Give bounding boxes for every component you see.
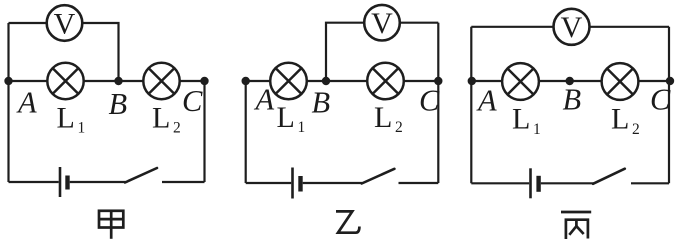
wire: left vertical (丙) [470, 27, 472, 184]
svg-text:L: L [277, 101, 295, 134]
svg-text:1: 1 [78, 120, 86, 137]
wire: left vertical (乙) [245, 81, 247, 183]
wire: right vertical top corner to node C (乙) [437, 23, 439, 81]
lamp L2 (乙) [367, 63, 404, 100]
wire: main wire node B to lamp L2 (乙) [326, 80, 367, 82]
svg-text:L: L [374, 101, 392, 134]
node C (乙) [434, 77, 442, 85]
caption 甲 [99, 210, 123, 239]
wire: main wire node A to lamp L1 (乙) [246, 80, 271, 82]
wire: bottom wire left segment to battery (甲) [9, 181, 59, 183]
wire: main wire node A to lamp L1 (甲) [9, 80, 48, 82]
wire: top wire left of voltmeter (丙) [471, 26, 553, 28]
wire: battery to switch hinge (丙) [541, 182, 594, 184]
svg-text:1: 1 [533, 121, 541, 138]
lamp L2 (丙) [602, 63, 639, 100]
lamp L1 (乙) [270, 63, 307, 100]
wire: main wire lamp L2 to node C (丙) [638, 80, 669, 82]
wire: battery to switch hinge (乙) [303, 182, 363, 184]
svg-text:B: B [109, 87, 128, 121]
lamp L2 (甲) [143, 63, 179, 99]
svg-text:C: C [182, 84, 203, 118]
wire: bottom wire left segment to battery (乙) [246, 182, 292, 184]
wire: main wire lamp L1 to lamp L2 (甲) [84, 80, 143, 82]
voltmeter V (乙) [364, 5, 400, 41]
wire: right vertical (丙) [668, 27, 670, 184]
lamp L1 (甲) [47, 63, 83, 99]
wire: battery to switch hinge (甲) [70, 181, 126, 183]
lamp L1 (丙) [502, 63, 539, 100]
node B (甲) [114, 77, 122, 85]
svg-text:B: B [312, 85, 331, 119]
wire: main wire lamp L2 to node C (乙) [404, 80, 439, 82]
svg-text:1: 1 [298, 119, 306, 136]
wire: voltmeter branch riser from node B (乙) [326, 23, 365, 81]
battery (乙) [293, 168, 301, 199]
wire: switch contact to bottom-right corner (乙) [399, 182, 439, 184]
wire: main wire node A to lamp L1 (丙) [471, 80, 502, 82]
wire: switch contact to bottom-right corner (甲) [162, 181, 205, 183]
svg-text:B: B [563, 82, 582, 116]
node B (丙) [566, 77, 574, 85]
wire: top wire right of voltmeter with drop to node B (甲) [82, 23, 118, 80]
wire: main wire lamp L1 to node B (乙) [307, 80, 326, 82]
battery (丙) [531, 168, 539, 198]
svg-text:2: 2 [173, 120, 181, 137]
svg-text:A: A [476, 83, 497, 117]
svg-text:A: A [16, 85, 37, 119]
node C (丙) [666, 77, 674, 85]
svg-text:V: V [54, 7, 76, 40]
svg-text:V: V [371, 7, 393, 40]
caption 乙 [336, 211, 359, 232]
svg-text:C: C [419, 83, 440, 117]
svg-text:V: V [561, 11, 583, 44]
node C (甲) [200, 77, 208, 85]
wire: voltmeter to top-right corner (乙) [400, 22, 439, 24]
switch blade (甲) [125, 168, 157, 183]
wire: right vertical node C to bottom (甲) [203, 81, 205, 182]
wire: right vertical node C to bottom (乙) [437, 81, 439, 183]
node A (甲) [4, 77, 12, 85]
wire: bottom wire left segment to battery (丙) [471, 182, 529, 184]
battery (甲) [60, 167, 68, 197]
svg-text:A: A [254, 82, 275, 116]
svg-text:L: L [611, 103, 629, 136]
svg-text:2: 2 [395, 119, 403, 136]
switch blade (丙) [593, 169, 625, 184]
switch blade (乙) [362, 169, 395, 184]
wire: top wire right of voltmeter (丙) [590, 26, 670, 28]
svg-text:L: L [152, 101, 170, 134]
node B (乙) [322, 77, 330, 85]
svg-text:C: C [650, 82, 671, 116]
svg-text:2: 2 [632, 121, 640, 138]
voltmeter V (丙) [554, 9, 590, 45]
node A (丙) [468, 77, 476, 85]
wire: main wire lamp L1 to lamp L2 (丙) [539, 80, 602, 82]
wire: left vertical (甲) [7, 23, 9, 182]
svg-text:L: L [57, 101, 75, 134]
svg-text:L: L [512, 103, 530, 136]
caption 丙 [561, 212, 591, 239]
voltmeter V (甲) [47, 5, 83, 41]
wire: top wire left of voltmeter (甲) [9, 22, 48, 24]
wire: main wire lamp L2 to node C (甲) [180, 80, 205, 82]
node A (乙) [242, 77, 250, 85]
wire: switch contact to bottom-right corner (丙) [631, 182, 669, 184]
